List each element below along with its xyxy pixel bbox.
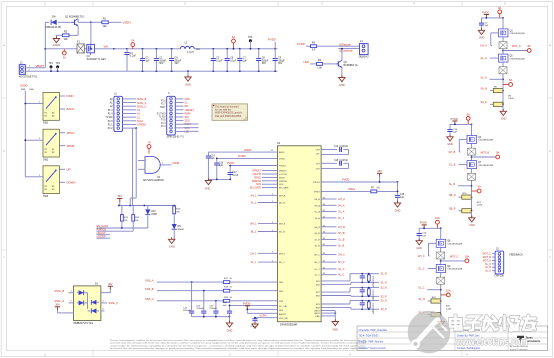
wire R3 to J4 bbox=[317, 43, 360, 46]
svg-text:C17: C17 bbox=[232, 172, 237, 174]
wire REF row bbox=[246, 308, 277, 310]
svg-text:PVDD: PVDD bbox=[243, 302, 250, 306]
svg-text:GL_B: GL_B bbox=[338, 238, 345, 241]
svg-text:330µF: 330µF bbox=[262, 60, 269, 62]
svg-text:C29 1000pF: C29 1000pF bbox=[372, 290, 374, 302]
svg-text:2.2µF: 2.2µF bbox=[251, 326, 257, 328]
svg-text:S1_P: S1_P bbox=[381, 281, 387, 284]
svg-text:T1.930: T1.930 bbox=[105, 117, 113, 119]
transistor Q5 bbox=[335, 60, 358, 67]
jumper F1 bbox=[77, 40, 84, 53]
wire Q5 collector bbox=[341, 48, 343, 61]
half-bridge phase C (Q8,Q9) bbox=[416, 216, 469, 331]
svg-text:P2.2: P2.2 bbox=[108, 128, 113, 130]
svg-text:10A: 10A bbox=[446, 289, 451, 293]
net SNS_B row bbox=[145, 287, 278, 292]
testpoint above gate bbox=[147, 141, 151, 154]
svg-text:SNSL_A: SNSL_A bbox=[137, 102, 147, 105]
capacitor C16 1uF bbox=[214, 158, 224, 180]
svg-text:DC_CAL: DC_CAL bbox=[279, 305, 288, 308]
wire VBATT vertical from diode row to main rail bbox=[44, 22, 46, 68]
svg-text:2200pF: 2200pF bbox=[196, 308, 204, 310]
svg-text:MOT_A: MOT_A bbox=[512, 45, 521, 48]
svg-text:SL_B: SL_B bbox=[315, 246, 321, 248]
svg-text:GND: GND bbox=[205, 186, 211, 190]
svg-text:36V: 36V bbox=[117, 194, 122, 198]
ground AGND bbox=[53, 36, 61, 47]
svg-text:GH_C: GH_C bbox=[418, 255, 425, 258]
svg-text:SNSL_C: SNSL_C bbox=[137, 105, 147, 108]
diode D1a bbox=[77, 290, 88, 295]
diode D4 bbox=[45, 15, 62, 29]
svg-text:FWD: FWD bbox=[67, 94, 73, 98]
svg-text:CSD18540Q5B: CSD18540Q5B bbox=[478, 140, 494, 142]
svg-text:licensors do not warrant that: licensors do not warrant that the design… bbox=[110, 347, 367, 350]
svg-text:1µF: 1µF bbox=[453, 132, 457, 134]
title block bbox=[357, 326, 548, 350]
wire R1 to net VSEN bbox=[108, 21, 121, 23]
svg-text:UP: UP bbox=[67, 167, 71, 171]
net SNSL_A bbox=[55, 300, 74, 303]
diode D1c bbox=[88, 293, 100, 309]
svg-text:DVDD: DVDD bbox=[238, 154, 246, 158]
diode D1b bbox=[77, 300, 88, 305]
svg-text:10A: 10A bbox=[465, 255, 470, 259]
svg-text:DVDD: DVDD bbox=[20, 83, 27, 87]
svg-text:9A: 9A bbox=[496, 151, 499, 155]
svg-text:VCPH: VCPH bbox=[260, 315, 267, 318]
IC right gate pins bbox=[321, 198, 345, 277]
svg-text:Orderable: PMP_orderable: Orderable: PMP_orderable bbox=[359, 329, 388, 332]
svg-text:SL_B: SL_B bbox=[338, 245, 344, 248]
wires J2 to pullup verticals bbox=[130, 132, 136, 206]
svg-text:SPDB: SPDB bbox=[67, 144, 75, 148]
svg-text:SH_A: SH_A bbox=[338, 204, 345, 207]
net SNS_C row bbox=[145, 297, 278, 302]
svg-text:MMBZ27VCLT1G: MMBZ27VCLT1G bbox=[74, 322, 94, 325]
watermark url text bbox=[455, 336, 527, 348]
svg-text:PVDD2: PVDD2 bbox=[313, 182, 321, 184]
net SNSL_C right bbox=[101, 301, 118, 305]
diode D1d bbox=[88, 308, 100, 313]
svg-text:SNSL_B: SNSL_B bbox=[55, 290, 65, 293]
svg-text:PAD: PAD bbox=[316, 315, 321, 318]
svg-text:DOWN: DOWN bbox=[67, 180, 76, 184]
svg-text:DR: DR bbox=[185, 105, 189, 108]
connector J4 282834-2 bbox=[359, 40, 370, 58]
svg-text:C13: C13 bbox=[334, 146, 339, 148]
svg-text:C14: C14 bbox=[211, 155, 216, 157]
svg-text:330µF: 330µF bbox=[175, 60, 182, 62]
svg-text:warrant that this design will: warrant that this design will meet the s… bbox=[110, 342, 367, 345]
svg-text:0.047µF: 0.047µF bbox=[340, 160, 349, 162]
svg-text:BC848BLT1G: BC848BLT1G bbox=[344, 65, 358, 67]
switch SW2 bbox=[37, 129, 74, 161]
inductor L1 4.7uH bbox=[180, 41, 200, 54]
svg-text:PVDD: PVDD bbox=[451, 117, 458, 121]
svg-text:10A: 10A bbox=[435, 216, 440, 220]
svg-text:SH_C: SH_C bbox=[314, 262, 320, 264]
svg-text:C15: C15 bbox=[334, 160, 339, 162]
svg-text:GL_C: GL_C bbox=[418, 268, 425, 271]
svg-text:TID #: TIDA-00001: TID #: TIDA-00001 bbox=[359, 335, 380, 338]
svg-text:LED: LED bbox=[304, 60, 309, 64]
svg-text:GL_A: GL_A bbox=[338, 211, 345, 214]
ground GND ladder bbox=[185, 70, 191, 86]
wire VREG row with resistor bbox=[321, 188, 397, 193]
capacitor C18 vreg bbox=[395, 182, 405, 203]
svg-text:36V: 36V bbox=[108, 283, 113, 286]
resistor R16 470 bbox=[173, 206, 181, 214]
svg-text:TSW-106: TSW-106 bbox=[494, 276, 504, 278]
svg-text:www.elecfans.com: www.elecfans.com bbox=[455, 336, 527, 348]
filter capacitors C2-C9 bbox=[140, 48, 285, 72]
top rail to inductor bbox=[143, 48, 181, 50]
IC internal pin names left bbox=[279, 151, 289, 320]
main rail VM bbox=[45, 48, 142, 50]
testpoint TP5 on rail bbox=[131, 38, 135, 48]
svg-text:GND: GND bbox=[479, 37, 485, 40]
switch SW1 FWD/BACK bbox=[37, 93, 74, 125]
svg-text:SSW-110-01-T-S: SSW-110-01-T-S bbox=[167, 136, 185, 138]
svg-text:SB_N: SB_N bbox=[449, 194, 456, 197]
svg-text:1µF: 1µF bbox=[223, 305, 227, 307]
net SNS_A row bbox=[145, 278, 278, 283]
ground rail avdd caps bbox=[205, 178, 231, 190]
svg-text:CDBU0140-HF: CDBU0140-HF bbox=[45, 26, 62, 29]
net labels pullup bbox=[97, 225, 109, 238]
svg-text:BACK: BACK bbox=[67, 107, 75, 111]
resistor R4 1.0k bbox=[317, 59, 323, 69]
svg-text:GND: GND bbox=[447, 143, 453, 146]
power flag 36V bbox=[377, 169, 382, 183]
svg-text:CSD18540Q5B: CSD18540Q5B bbox=[510, 58, 526, 60]
svg-text:2200pF: 2200pF bbox=[183, 310, 191, 312]
svg-text:VREG: VREG bbox=[348, 188, 355, 191]
svg-text:GH_A: GH_A bbox=[314, 198, 320, 201]
svg-text:SH_A: SH_A bbox=[314, 204, 320, 207]
svg-text:0.005: 0.005 bbox=[477, 205, 483, 207]
svg-text:GH_B: GH_B bbox=[314, 227, 320, 229]
svg-text:GND: GND bbox=[185, 98, 191, 101]
led D10 PWR bbox=[145, 206, 157, 229]
wire R4 to Q5 base bbox=[323, 63, 336, 65]
sense filter network phase2 bbox=[321, 287, 387, 302]
svg-text:SNS_C: SNS_C bbox=[145, 297, 154, 301]
svg-text:GH_C: GH_C bbox=[338, 254, 345, 257]
svg-text:PWR: PWR bbox=[152, 214, 158, 216]
ground IC bbox=[332, 319, 338, 331]
svg-text:SNSL_B: SNSL_B bbox=[137, 98, 147, 101]
svg-text:6A: 6A bbox=[232, 35, 235, 39]
svg-text:GL_C: GL_C bbox=[314, 269, 320, 271]
svg-text:PVDD: PVDD bbox=[420, 221, 427, 225]
resistor R14 10k bbox=[132, 215, 140, 222]
svg-text:50V: 50V bbox=[159, 63, 164, 65]
svg-text:FEEDBACK: FEEDBACK bbox=[509, 253, 523, 256]
svg-text:original TI reference: original TI reference bbox=[510, 349, 529, 351]
svg-text:1µF: 1µF bbox=[243, 60, 248, 62]
watermark CJK characters bbox=[450, 316, 536, 331]
svg-text:MOT_C: MOT_C bbox=[450, 255, 459, 258]
svg-text:3A: 3A bbox=[63, 55, 66, 59]
svg-text:BL_1: BL_1 bbox=[251, 231, 257, 234]
svg-text:GND: GND bbox=[227, 329, 233, 333]
svg-text:SW2: SW2 bbox=[43, 158, 49, 161]
capacitor C24 bbox=[196, 291, 206, 317]
svg-text:36V: 36V bbox=[55, 303, 60, 306]
svg-text:SL_C: SL_C bbox=[418, 287, 424, 290]
net label PVDD led bbox=[297, 42, 311, 46]
capacitor C25 bbox=[209, 301, 219, 317]
svg-text:SL_A: SL_A bbox=[338, 217, 344, 220]
svg-text:SNS_B: SNS_B bbox=[145, 287, 154, 291]
svg-text:MOT_B: MOT_B bbox=[481, 152, 490, 155]
svg-text:GL_B: GL_B bbox=[314, 239, 320, 241]
svg-text:SCLK: SCLK bbox=[137, 120, 144, 123]
svg-text:0.005: 0.005 bbox=[446, 309, 452, 311]
svg-text:DVDD: DVDD bbox=[279, 158, 285, 160]
svg-text:PVDD: PVDD bbox=[342, 178, 349, 182]
svg-text:P1.6: P1.6 bbox=[161, 101, 166, 103]
wire PVDD2 row bbox=[321, 178, 398, 183]
svg-text:INH_C: INH_C bbox=[279, 253, 286, 255]
top rail after inductor bbox=[194, 48, 277, 50]
IC left gate pins bbox=[250, 194, 277, 264]
wire DVDD bbox=[217, 154, 277, 158]
svg-text:T1.930: T1.930 bbox=[158, 117, 166, 119]
capacitor C14 1uF bbox=[206, 152, 216, 179]
svg-text:GH_C: GH_C bbox=[314, 255, 320, 257]
svg-text:CSD18540Q5B: CSD18540Q5B bbox=[447, 269, 463, 271]
svg-text:1µF: 1µF bbox=[146, 60, 151, 62]
svg-text:SH_B: SH_B bbox=[314, 233, 320, 235]
capacitor C1 0.1uF bbox=[124, 49, 136, 71]
power flag left d1 bbox=[55, 303, 74, 313]
svg-text:GND: GND bbox=[169, 245, 175, 249]
svg-text:C16: C16 bbox=[219, 162, 224, 164]
svg-text:SCS: SCS bbox=[279, 184, 284, 186]
svg-text:D10: D10 bbox=[152, 211, 157, 213]
svg-text:4.7µH: 4.7µH bbox=[187, 51, 194, 54]
svg-text:VM: VM bbox=[104, 44, 109, 48]
svg-text:0.1µF: 0.1µF bbox=[130, 55, 137, 58]
svg-text:VDD_SPI: VDD_SPI bbox=[279, 318, 288, 320]
svg-text:P1.4: P1.4 bbox=[161, 123, 166, 125]
svg-text:SL_B: SL_B bbox=[449, 183, 455, 186]
led D11 Green bbox=[172, 214, 185, 240]
svg-text:SN74AHC1G08DCK: SN74AHC1G08DCK bbox=[143, 179, 165, 182]
note box MSP430 bbox=[212, 104, 247, 120]
svg-text:TP4: TP4 bbox=[248, 36, 253, 39]
svg-text:INL_B: INL_B bbox=[279, 232, 285, 234]
capacitor C15 bootstrap bbox=[321, 160, 348, 169]
switch SW3 UP/DOWN bbox=[37, 166, 75, 198]
svg-text:PVDD1: PVDD1 bbox=[279, 166, 287, 168]
resistor R2 10k bbox=[63, 31, 70, 42]
wire pullup verticals top bbox=[122, 206, 133, 215]
svg-text:nOCTW: nOCTW bbox=[279, 174, 287, 176]
svg-text:8A: 8A bbox=[498, 6, 501, 10]
net label PVDD bottom bbox=[243, 302, 278, 314]
svg-text:SL_A: SL_A bbox=[481, 76, 487, 79]
capacitor C27 2.2uF bbox=[251, 318, 259, 329]
disclaimer text bbox=[110, 339, 367, 350]
svg-text:AL_1: AL_1 bbox=[251, 202, 257, 205]
svg-text:1µF: 1µF bbox=[219, 165, 224, 167]
svg-text:PWM: PWM bbox=[173, 161, 180, 165]
diode array D1 body bbox=[74, 282, 101, 325]
svg-text:36V: 36V bbox=[377, 169, 382, 173]
svg-text:GH_A: GH_A bbox=[338, 198, 345, 201]
svg-text:GND: GND bbox=[185, 83, 191, 87]
svg-text:SA_N: SA_N bbox=[481, 88, 488, 91]
svg-text:SUM110P-T1-GE3: SUM110P-T1-GE3 bbox=[87, 59, 107, 61]
testpoint TP4 black bbox=[248, 36, 253, 50]
ground pullup leds bbox=[169, 237, 175, 249]
wires J3 long rows bbox=[184, 124, 199, 131]
wire R2 to AGND bbox=[56, 35, 62, 38]
svg-text:1.0k: 1.0k bbox=[317, 66, 322, 69]
svg-text:GL_A: GL_A bbox=[481, 57, 488, 60]
connector J5 feedback bbox=[483, 248, 523, 278]
svg-text:P1.3: P1.3 bbox=[108, 110, 113, 112]
svg-text:0.005: 0.005 bbox=[508, 98, 514, 100]
svg-text:Q1 BC848BLT1G: Q1 BC848BLT1G bbox=[65, 16, 84, 19]
svg-text:STROM: STROM bbox=[137, 124, 146, 127]
connector J2 launchpad header bbox=[105, 93, 146, 132]
resistor R1 10k bbox=[102, 18, 109, 29]
svg-text:0.1µF: 0.1µF bbox=[216, 60, 223, 62]
svg-text:INL_C: INL_C bbox=[279, 262, 285, 264]
IC left control pins bbox=[250, 170, 277, 190]
svg-text:SH_B: SH_B bbox=[338, 232, 345, 235]
svg-text:P1.4: P1.4 bbox=[108, 114, 113, 116]
wire Q1 emitter to R2 bbox=[69, 26, 78, 35]
svg-text:282834-2: 282834-2 bbox=[359, 55, 370, 58]
svg-text:S3_N: S3_N bbox=[381, 300, 387, 303]
svg-text:SL_C: SL_C bbox=[338, 274, 344, 277]
testpoint TP3 below rail bbox=[62, 49, 66, 59]
IC ground pins bbox=[321, 311, 336, 322]
svg-text:SPDA: SPDA bbox=[67, 131, 75, 135]
svg-text:GL_B: GL_B bbox=[449, 164, 456, 167]
svg-text:Pad with MSP430G2553: Pad with MSP430G2553 bbox=[215, 115, 242, 118]
svg-text:EN_GATE: EN_GATE bbox=[279, 187, 289, 190]
half-bridge phase B (Q6,Q7) bbox=[447, 112, 500, 227]
svg-text:50V: 50V bbox=[278, 63, 283, 65]
svg-text:SL_A: SL_A bbox=[315, 217, 321, 220]
svg-text:LEDanode: LEDanode bbox=[339, 43, 351, 46]
testpoint TP6 red bbox=[232, 35, 236, 50]
svg-text:P1.7: P1.7 bbox=[161, 104, 166, 106]
wire J1 pin1 VBATT bbox=[25, 64, 45, 68]
capacitor C26 1uF bbox=[223, 302, 233, 317]
svg-text:4.7µF: 4.7µF bbox=[232, 175, 239, 177]
net label LED bbox=[304, 60, 317, 64]
svg-text:Texas Instruments and/or its l: Texas Instruments and/or its licensors d… bbox=[110, 339, 367, 342]
sense filter network phase1 bbox=[321, 273, 387, 288]
svg-text:SW1: SW1 bbox=[43, 122, 49, 125]
svg-text:P1.3: P1.3 bbox=[161, 126, 166, 128]
svg-text:9A: 9A bbox=[467, 112, 470, 116]
svg-text:S2_N: S2_N bbox=[381, 287, 387, 290]
testpoint TP1 bbox=[49, 62, 54, 72]
svg-text:nOCTW: nOCTW bbox=[97, 235, 107, 238]
svg-text:CSD18540Q5B: CSD18540Q5B bbox=[478, 165, 494, 167]
svg-text:SW3: SW3 bbox=[43, 195, 49, 198]
svg-text:9A: 9A bbox=[478, 185, 481, 189]
svg-text:SB_P: SB_P bbox=[449, 208, 456, 211]
svg-text:INH_B: INH_B bbox=[279, 223, 286, 225]
svg-text:C18: C18 bbox=[400, 194, 405, 196]
net VCPH row bbox=[254, 315, 277, 319]
svg-text:GL_A: GL_A bbox=[314, 211, 320, 214]
svg-text:P1.TWO: P1.TWO bbox=[157, 113, 166, 115]
svg-text:GND: GND bbox=[501, 118, 507, 121]
svg-text:50V: 50V bbox=[262, 63, 267, 65]
svg-text:PWRGD: PWRGD bbox=[279, 181, 287, 183]
svg-text:AVDD: AVDD bbox=[244, 148, 251, 152]
svg-text:INL_A: INL_A bbox=[279, 202, 285, 205]
svg-text:GND: GND bbox=[469, 224, 475, 227]
svg-text:SNSL_C: SNSL_C bbox=[109, 302, 119, 305]
svg-text:SH_C: SH_C bbox=[338, 261, 345, 264]
svg-text:GND: GND bbox=[332, 328, 338, 332]
net SNSL_B bbox=[55, 290, 74, 293]
watermark logo circle bbox=[408, 311, 451, 354]
svg-text:D4: D4 bbox=[52, 15, 56, 19]
wires pullup nets bbox=[97, 206, 148, 239]
svg-text:AVDD: AVDD bbox=[279, 151, 285, 154]
svg-text:1µF: 1µF bbox=[400, 197, 405, 199]
gnd rail sns caps bbox=[192, 316, 231, 318]
svg-text:AGND: AGND bbox=[53, 43, 61, 47]
svg-text:GL_C: GL_C bbox=[338, 268, 345, 271]
wire PVDD1 row bbox=[227, 162, 277, 166]
net label VBAT bbox=[104, 44, 109, 48]
svg-text:SC_N: SC_N bbox=[418, 298, 425, 301]
svg-text:PVDD: PVDD bbox=[482, 10, 489, 14]
power flag 3V3 pullups bbox=[117, 194, 122, 202]
svg-text:LEDcathode: LEDcathode bbox=[339, 50, 353, 53]
svg-text:VBATT: VBATT bbox=[36, 64, 45, 68]
wire DC_CAL row bbox=[229, 305, 278, 307]
svg-text:P2.1: P2.1 bbox=[108, 124, 113, 126]
svg-text:CSD18540Q5B: CSD18540Q5B bbox=[447, 244, 463, 246]
svg-text:0.1µF: 0.1µF bbox=[230, 60, 237, 62]
svg-text:CSD18540Q5B: CSD18540Q5B bbox=[510, 33, 526, 35]
testpoint TP2 bbox=[56, 62, 61, 72]
svg-text:Instruments: Instruments bbox=[526, 339, 541, 343]
svg-text:PVDD: PVDD bbox=[297, 42, 305, 46]
wire VSEN branch vertical bbox=[90, 22, 92, 49]
connector J1 battery bbox=[19, 61, 38, 78]
svg-text:330µF: 330µF bbox=[278, 60, 285, 62]
wire d1 bottom right bbox=[101, 309, 105, 311]
svg-text:Green: Green bbox=[178, 228, 185, 231]
svg-text:GH_B: GH_B bbox=[338, 226, 345, 229]
svg-text:5A: 5A bbox=[131, 38, 134, 42]
half-bridge phase A (Q3,Q5) bbox=[478, 6, 531, 121]
svg-text:1µF: 1µF bbox=[422, 236, 426, 238]
svg-text:S2_P: S2_P bbox=[381, 295, 387, 298]
svg-text:8A: 8A bbox=[528, 44, 531, 48]
IC U1 DRV8303 body bbox=[277, 142, 321, 326]
capacitor C13 bootstrap bbox=[321, 146, 348, 155]
wire J1 pin2 bottom rail bbox=[25, 69, 142, 71]
svg-text:GH_A: GH_A bbox=[480, 45, 487, 48]
